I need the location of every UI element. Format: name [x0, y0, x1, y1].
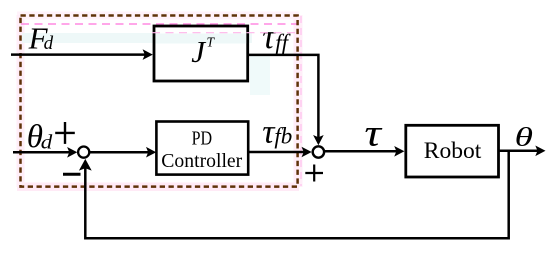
input Fd label	[28, 21, 54, 56]
summing junction S1	[78, 147, 89, 158]
wire PD output to summing junction S2	[248, 147, 312, 158]
plus sign at summing junction S2	[305, 165, 323, 182]
label tau (torque)	[364, 112, 383, 154]
input theta_d label	[27, 119, 53, 155]
summing junction S2	[313, 146, 324, 157]
svg-text:PD: PD	[192, 128, 213, 149]
wire S1 to PD controller	[90, 147, 156, 158]
svg-text:Robot: Robot	[424, 138, 482, 164]
block PD Controller	[156, 122, 248, 175]
svg-text:τ: τ	[364, 112, 383, 154]
svg-text:J: J	[191, 34, 206, 69]
svg-text:d: d	[41, 131, 53, 153]
wire Robot output (theta)	[499, 146, 546, 157]
svg-text:d: d	[44, 33, 54, 54]
wire theta_d to summing junction S1	[13, 147, 77, 158]
wire Fd input to JT block	[11, 49, 153, 60]
label theta (output)	[515, 122, 534, 151]
dashed boundary box (feedforward + feedback controller)	[21, 16, 298, 187]
svg-text:θ: θ	[515, 122, 534, 151]
jpeg halo/tint artifacts (decorative)	[17, 12, 303, 192]
block Robot	[406, 125, 499, 177]
label tau_fb	[262, 114, 292, 151]
wire S2 to Robot (tau)	[325, 146, 405, 157]
svg-text:τ: τ	[262, 17, 276, 56]
svg-text:fb: fb	[274, 124, 292, 149]
jpeg ghost line artifact (decorative)	[152, 32, 297, 34]
svg-text:Controller: Controller	[161, 150, 242, 172]
wire JT output down to summing junction S2	[248, 55, 324, 145]
block JT (Jacobian transpose)	[154, 26, 248, 81]
plus sign at summing junction S1	[55, 122, 75, 144]
label tau_ff	[262, 17, 290, 56]
feedback wire from output back to summing junction S1	[79, 151, 509, 239]
minus sign at summing junction S1	[63, 173, 81, 176]
